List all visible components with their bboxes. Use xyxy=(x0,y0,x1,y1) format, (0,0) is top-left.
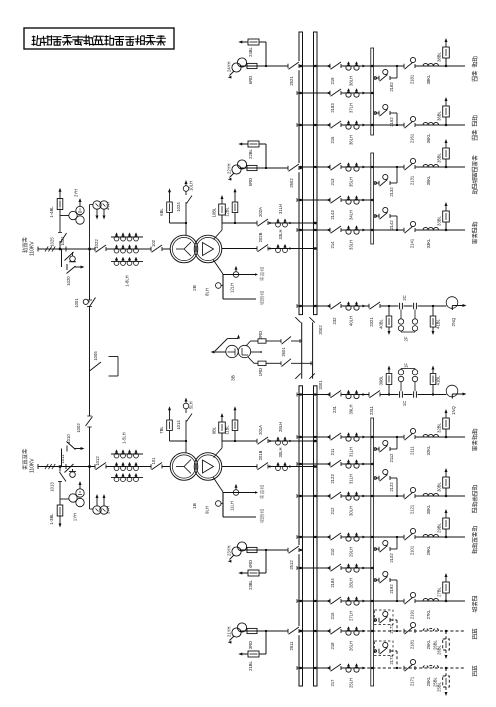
current transformer 28LH xyxy=(346,567,351,572)
current transformer 38LH xyxy=(346,65,351,70)
voltage transformer 21YH xyxy=(232,628,241,637)
disconnector 1013 xyxy=(60,472,67,482)
svg-text:38KL: 38KL xyxy=(426,74,431,84)
disconnector 1010 with arrow xyxy=(66,446,68,452)
title box xyxy=(24,28,174,49)
bus I lower section xyxy=(299,386,303,686)
fuse 2RD xyxy=(258,339,266,343)
svg-text:40LH: 40LH xyxy=(349,316,354,326)
reactor 32KL xyxy=(423,434,439,437)
svg-text:36BL: 36BL xyxy=(437,110,442,120)
svg-text:21YH: 21YH xyxy=(227,627,232,637)
disconnector 2521 xyxy=(288,61,300,70)
disconnector 232 xyxy=(330,301,342,310)
surge arrester 26BL xyxy=(445,631,447,639)
svg-text:2132: 2132 xyxy=(389,187,394,197)
bypass breaker 2102 xyxy=(378,547,380,551)
reactor 38KL xyxy=(423,63,439,66)
surge arrester 27BL xyxy=(445,593,447,601)
coupler disconnector 2002 xyxy=(295,317,300,322)
disconnector 1002 xyxy=(87,415,91,417)
wire: 7BL branch xyxy=(170,440,187,442)
svg-text:33LH: 33LH xyxy=(278,229,283,239)
svg-text:2183: 2183 xyxy=(330,103,335,113)
current transformer 34LH xyxy=(346,199,351,204)
svg-text:1022: 1022 xyxy=(94,239,99,249)
line break squiggle xyxy=(45,246,48,251)
feeder name 下行到达场 xyxy=(472,526,477,553)
voltage transformer 22YH xyxy=(232,165,241,174)
svg-text:3B: 3B xyxy=(231,375,236,381)
disconnector 2143 xyxy=(330,195,342,204)
svg-text:25KL: 25KL xyxy=(426,676,431,686)
svg-text:3RD: 3RD xyxy=(248,641,253,649)
current transformer 10LH xyxy=(183,186,189,192)
feeder wire y=668 xyxy=(297,667,362,669)
current transformer 25LH xyxy=(346,667,351,672)
svg-text:23YH: 23YH xyxy=(227,546,232,556)
disconnector 2512 xyxy=(288,545,300,554)
bypass breaker 2132 xyxy=(378,181,380,185)
disconnector 216 xyxy=(330,120,342,129)
bypass breaker 2192 xyxy=(378,578,380,582)
capacitor bank 2C xyxy=(398,303,403,310)
wire: 1B LV return xyxy=(213,477,223,492)
bypass branch 2132 xyxy=(374,182,379,184)
fuse 6RD xyxy=(247,63,257,68)
current transformer 11LH xyxy=(233,490,239,496)
bypass breaker 2122 xyxy=(378,476,380,480)
svg-text:1024: 1024 xyxy=(176,202,181,212)
bypass bus segment C xyxy=(371,418,374,686)
surge arrester 41BL xyxy=(432,385,434,395)
svg-text:38BL: 38BL xyxy=(437,51,442,61)
feeder name 田心下行 xyxy=(472,429,477,451)
disconnector 2502 xyxy=(288,163,300,172)
svg-text:2001: 2001 xyxy=(318,380,323,390)
svg-text:1011: 1011 xyxy=(60,454,65,464)
svg-text:1RD: 1RD xyxy=(258,368,263,376)
current transformer 30LH xyxy=(276,466,281,471)
svg-text:33LH: 33LH xyxy=(349,240,354,250)
reactor 25KL xyxy=(423,665,439,668)
wire: 2B HV neutral riser xyxy=(185,204,187,236)
svg-text:110KV: 110KV xyxy=(30,241,36,256)
voltage transformer 4YH xyxy=(93,201,101,209)
fuse 4RD xyxy=(247,547,257,552)
svg-text:2173: 2173 xyxy=(389,655,394,665)
svg-text:31LH: 31LH xyxy=(349,447,354,457)
feeder wire y=631 xyxy=(297,630,362,632)
line break squiggle xyxy=(45,464,48,469)
current transformer 33LH xyxy=(276,248,281,253)
transformer 1B secondary winding xyxy=(194,453,222,481)
svg-text:2112: 2112 xyxy=(389,453,394,463)
svg-text:11LH: 11LH xyxy=(230,501,235,511)
surge arrester 12BL xyxy=(234,213,236,224)
wire: 2YH tap xyxy=(60,215,69,217)
svg-text:2002: 2002 xyxy=(318,325,323,335)
svg-text:1013: 1013 xyxy=(50,482,55,492)
svg-text:202B: 202B xyxy=(258,232,263,242)
svg-text:2141: 2141 xyxy=(410,238,415,248)
disconnector 1022 xyxy=(95,244,107,253)
wire: 6BL branch xyxy=(170,222,187,224)
voltage transformer 3YH xyxy=(93,506,101,514)
svg-text:1002: 1002 xyxy=(76,423,81,433)
breaker 2141 xyxy=(404,225,416,234)
svg-text:29BL: 29BL xyxy=(437,522,442,532)
svg-text:2102: 2102 xyxy=(389,553,394,563)
svg-text:32BL: 32BL xyxy=(437,422,442,432)
svg-text:36LH: 36LH xyxy=(349,135,354,145)
surge arrester 41BL xyxy=(432,306,434,316)
svg-text:1B: 1B xyxy=(192,503,197,509)
svg-text:26KL: 26KL xyxy=(426,639,431,649)
svg-text:2172: 2172 xyxy=(389,624,394,634)
wire: 1YH tap xyxy=(60,498,69,500)
current transformer 5LH xyxy=(183,403,189,409)
transfer row wire y=93 xyxy=(297,92,371,94)
svg-text:217: 217 xyxy=(330,679,335,687)
svg-text:39LH: 39LH xyxy=(349,404,354,414)
feeder name 湘潭 上行 xyxy=(472,116,477,140)
wire: 110kV tie xyxy=(89,249,91,300)
bypass branch 2122 xyxy=(374,477,379,479)
surge arrester 38BL xyxy=(445,58,447,66)
breaker 2181 xyxy=(404,61,416,70)
current transformer 39LH xyxy=(346,394,351,399)
svg-text:4RD: 4RD xyxy=(248,560,253,568)
svg-text:214: 214 xyxy=(330,241,335,249)
svg-text:2512: 2512 xyxy=(289,560,294,570)
bus I (27.5kV bus 1, upper section) xyxy=(299,32,303,315)
disconnector 2602 xyxy=(280,361,282,365)
wire: 3B LV output arrow xyxy=(214,351,226,353)
svg-text:2C: 2C xyxy=(402,295,407,300)
svg-text:7BL: 7BL xyxy=(159,426,164,434)
node at vertical tie 2 xyxy=(88,465,90,467)
surge arrester 9BL xyxy=(221,433,223,441)
svg-text:2181: 2181 xyxy=(410,639,415,649)
current transformer 12LH xyxy=(233,272,239,278)
svg-text:40BL: 40BL xyxy=(379,318,384,328)
breaker 2111 xyxy=(404,432,416,441)
feeder wire y=125 xyxy=(297,124,465,126)
svg-text:232: 232 xyxy=(332,317,337,325)
surge arrester 40BL xyxy=(388,306,390,316)
breaker 2131 xyxy=(404,162,416,171)
fuse 2RD row xyxy=(246,341,251,346)
current transformer 40LH xyxy=(346,305,351,310)
svg-text:22BL: 22BL xyxy=(248,148,253,158)
svg-text:101: 101 xyxy=(151,457,156,465)
svg-text:2191: 2191 xyxy=(410,609,415,619)
fuse 5RD xyxy=(247,165,257,170)
svg-text:27BL: 27BL xyxy=(437,586,442,596)
svg-text:215: 215 xyxy=(330,612,335,620)
svg-text:201A: 201A xyxy=(258,425,263,435)
svg-text:5LH: 5LH xyxy=(189,401,194,409)
bypass branch 2172 xyxy=(374,619,379,621)
fuse 1RD xyxy=(258,361,266,365)
voltage transformer 2YH xyxy=(69,211,77,219)
svg-text:41BL: 41BL xyxy=(436,375,441,385)
disconnector 2321 xyxy=(369,301,381,310)
PT bay 23YH xyxy=(240,549,299,551)
svg-text:231: 231 xyxy=(332,405,337,413)
bypass branch 2142 xyxy=(374,215,379,217)
svg-text:33KL: 33KL xyxy=(426,238,431,248)
disconnector 1012 xyxy=(95,462,107,471)
incoming line 株南线 110KV xyxy=(38,248,171,250)
reactor 29KL xyxy=(423,534,439,537)
current transformer 9LH xyxy=(221,503,223,505)
bypass branch 2173 xyxy=(374,650,379,652)
node: incoming junction 2 xyxy=(59,465,61,467)
svg-text:2502: 2502 xyxy=(289,178,294,188)
feeder wire y=601 xyxy=(297,600,465,602)
svg-text:30LH: 30LH xyxy=(278,447,283,457)
feeder name 机务段 xyxy=(472,596,477,612)
reactor 33KL xyxy=(423,227,439,230)
voltage transformer 23YH xyxy=(232,547,241,556)
disconnector 1025 xyxy=(59,241,61,243)
bus II (27.5kV bus 2, upper section) xyxy=(314,32,318,315)
svg-text:29LH: 29LH xyxy=(349,547,354,557)
svg-text:26LH: 26LH xyxy=(349,641,354,651)
capacitor bank 1C xyxy=(398,391,403,398)
svg-text:2RD: 2RD xyxy=(258,331,263,339)
current transformers 2F xyxy=(400,309,402,319)
bypass breaker 2112 xyxy=(378,447,380,451)
breaker 2191 xyxy=(404,596,416,605)
current transformer 31LH xyxy=(346,463,351,468)
label 机械箱/地源箱 2 xyxy=(260,485,264,499)
svg-text:9BL: 9BL xyxy=(212,426,217,434)
disconnector 2511 xyxy=(288,626,300,635)
bypass breaker 2162 xyxy=(378,111,380,115)
svg-text:2YH: 2YH xyxy=(74,189,79,197)
discharge gap 1NQ xyxy=(446,385,458,397)
bus II lower section xyxy=(314,386,318,686)
disconnector 201B xyxy=(257,462,269,471)
feeder wire y=66 xyxy=(297,65,465,67)
discharge gap 2NQ xyxy=(446,297,458,309)
wire: riser to 4YH xyxy=(89,205,91,250)
label 机械箱/地源箱 xyxy=(260,267,264,281)
svg-text:36KL: 36KL xyxy=(426,133,431,143)
svg-text:2181: 2181 xyxy=(410,74,415,84)
bypass branch 2162 xyxy=(374,112,379,114)
bypass breaker 2173 xyxy=(378,649,380,653)
svg-text:25LH: 25LH xyxy=(349,678,354,688)
feeder name 株洲北方向区间 xyxy=(472,156,477,194)
disconnector 2183 xyxy=(330,88,342,97)
svg-text:29KL: 29KL xyxy=(426,545,431,555)
reactor 36KL xyxy=(423,122,439,125)
current transformer 29LH xyxy=(346,536,351,541)
svg-text:216: 216 xyxy=(330,136,335,144)
surge arrester 23BL xyxy=(265,550,267,573)
earthing switch 1021 xyxy=(61,249,63,267)
transformer 3B winding 2 xyxy=(238,345,250,357)
node: incoming junction xyxy=(59,248,61,250)
current transformer 28LH xyxy=(276,440,281,445)
voltage transformer 1YH xyxy=(69,494,77,502)
bypass branch 2182 xyxy=(374,77,379,79)
svg-text:2184: 2184 xyxy=(330,578,335,588)
current transformer bank 1-5LH xyxy=(111,453,143,455)
svg-text:1020: 1020 xyxy=(66,276,71,286)
current transformer 34LH xyxy=(276,222,281,227)
bypass breaker 2142 xyxy=(378,214,380,218)
surge arrester 32BL xyxy=(445,429,447,437)
transfer row wire y=200 xyxy=(297,199,371,201)
svg-text:1025: 1025 xyxy=(50,237,55,247)
current transformer 31LH xyxy=(346,436,351,441)
filter bank row y=306 xyxy=(297,305,446,307)
surge arrester 35BL xyxy=(445,159,447,167)
bus coupler tie lines xyxy=(301,322,303,378)
feeder wire y=537 xyxy=(297,536,465,538)
transformer 2B secondary winding xyxy=(194,235,222,263)
svg-text:2NQ: 2NQ xyxy=(451,317,456,326)
bypass bus segment A xyxy=(371,48,374,135)
svg-text:3YH: 3YH xyxy=(106,506,111,514)
breaker 2171 xyxy=(403,666,405,670)
svg-text:2131: 2131 xyxy=(410,175,415,185)
svg-text:2B: 2B xyxy=(192,285,197,291)
svg-text:6RD: 6RD xyxy=(248,76,253,84)
svg-text:211: 211 xyxy=(330,448,335,455)
transfer row wire y=568 xyxy=(297,567,371,569)
svg-text:218: 218 xyxy=(330,642,335,650)
svg-text:1001: 1001 xyxy=(74,298,79,308)
svg-text:35LH: 35LH xyxy=(349,177,354,187)
surge arrester 6BL xyxy=(169,213,171,224)
svg-text:4YH: 4YH xyxy=(106,202,111,210)
svg-text:21BL: 21BL xyxy=(248,660,253,670)
svg-text:2143: 2143 xyxy=(330,210,335,220)
node at vertical tie xyxy=(88,248,90,250)
svg-text:1-4BL: 1-4BL xyxy=(49,206,54,218)
disconnector 1014 xyxy=(185,420,187,422)
surge arrester 30BL xyxy=(445,488,447,496)
svg-text:35KL: 35KL xyxy=(426,175,431,185)
svg-text:24YH: 24YH xyxy=(227,62,232,72)
disconnector 217 xyxy=(330,663,342,672)
PT bay 22YH xyxy=(240,167,299,169)
PT bay 21YH xyxy=(240,630,299,632)
disconnector 202B xyxy=(257,244,269,253)
surge arrester 39BL xyxy=(388,385,390,395)
svg-text:8LH: 8LH xyxy=(205,288,210,296)
svg-text:1C: 1C xyxy=(402,401,407,406)
svg-text:10BL: 10BL xyxy=(212,207,217,217)
svg-text:38LH: 38LH xyxy=(349,76,354,86)
breaker 1001 xyxy=(87,299,92,301)
svg-text:27LH: 27LH xyxy=(349,611,354,621)
current transformer 33LH xyxy=(346,229,351,234)
svg-text:31LH: 31LH xyxy=(349,474,354,484)
svg-text:201B: 201B xyxy=(258,450,263,460)
svg-text:30KL: 30KL xyxy=(426,504,431,514)
fuse 1RD row xyxy=(248,357,254,363)
feeder name 湘潭 下行 xyxy=(472,57,477,81)
transfer row wire y=464 xyxy=(297,463,371,465)
wire: 1B HV riser xyxy=(185,422,187,453)
svg-text:2321: 2321 xyxy=(369,317,374,327)
svg-text:210: 210 xyxy=(330,548,335,556)
reactor 27KL xyxy=(423,598,439,601)
fuse 3RD xyxy=(247,628,257,633)
wire: 2B output A (y=223) xyxy=(215,223,223,241)
svg-text:2521: 2521 xyxy=(289,76,294,86)
svg-text:1014: 1014 xyxy=(176,420,181,430)
disconnector 102 xyxy=(151,244,163,253)
svg-text:1-3BL: 1-3BL xyxy=(49,513,54,525)
disconnector 201A xyxy=(257,436,269,445)
reactor 35KL xyxy=(423,164,439,167)
transformer 3B winding 1 xyxy=(226,345,238,357)
surge arrester 10BL xyxy=(221,215,223,223)
feeder wire y=496 xyxy=(297,495,465,497)
svg-text:32KL: 32KL xyxy=(426,445,431,455)
bypass branch 2102 xyxy=(374,548,379,550)
disconnector 2123 xyxy=(330,459,342,468)
feeder wire y=230 xyxy=(297,229,465,231)
disconnector 210 xyxy=(330,532,342,541)
svg-text:212: 212 xyxy=(330,507,335,515)
svg-text:2311: 2311 xyxy=(369,405,374,415)
bypass branch 2112 xyxy=(374,448,379,450)
breaker 2161 xyxy=(404,120,416,129)
svg-text:102: 102 xyxy=(151,239,156,247)
svg-text:2182: 2182 xyxy=(389,82,394,92)
svg-text:219: 219 xyxy=(330,77,335,85)
svg-text:1-5LH: 1-5LH xyxy=(122,432,127,443)
current transformer 8LH xyxy=(221,285,223,287)
PT bay 24YH xyxy=(240,65,299,67)
svg-text:2601: 2601 xyxy=(281,347,286,357)
svg-text:35BL: 35BL xyxy=(437,152,442,162)
svg-text:1010: 1010 xyxy=(66,434,71,444)
surge arrester 11BL xyxy=(234,431,236,442)
current transformer 37LH xyxy=(346,92,351,97)
wire: drop to 3YH xyxy=(89,467,91,510)
reactor 26KL xyxy=(423,628,439,631)
surge arrester 22BL xyxy=(265,144,267,168)
current transformer 26LH xyxy=(346,630,351,635)
disconnector 2184 xyxy=(330,563,342,572)
breaker 2101 xyxy=(404,532,416,541)
svg-text:26BL: 26BL xyxy=(433,639,438,649)
disconnector 212 xyxy=(330,491,342,500)
earthing switch 1011 xyxy=(61,449,63,467)
bypass bus segment B xyxy=(371,153,374,244)
disconnector 1005 with stub xyxy=(90,362,102,371)
current transformer 35LH xyxy=(346,166,351,171)
feeder name 备用 xyxy=(472,629,476,639)
coupler disconnector 2001 xyxy=(295,373,300,378)
svg-text:22YH: 22YH xyxy=(227,164,232,174)
voltage transformer 24YH xyxy=(232,63,241,72)
bypass branch 2192 xyxy=(374,579,379,581)
svg-text:1F: 1F xyxy=(404,363,409,368)
svg-text:12LH: 12LH xyxy=(230,283,235,293)
svg-text:27KL: 27KL xyxy=(426,609,431,619)
